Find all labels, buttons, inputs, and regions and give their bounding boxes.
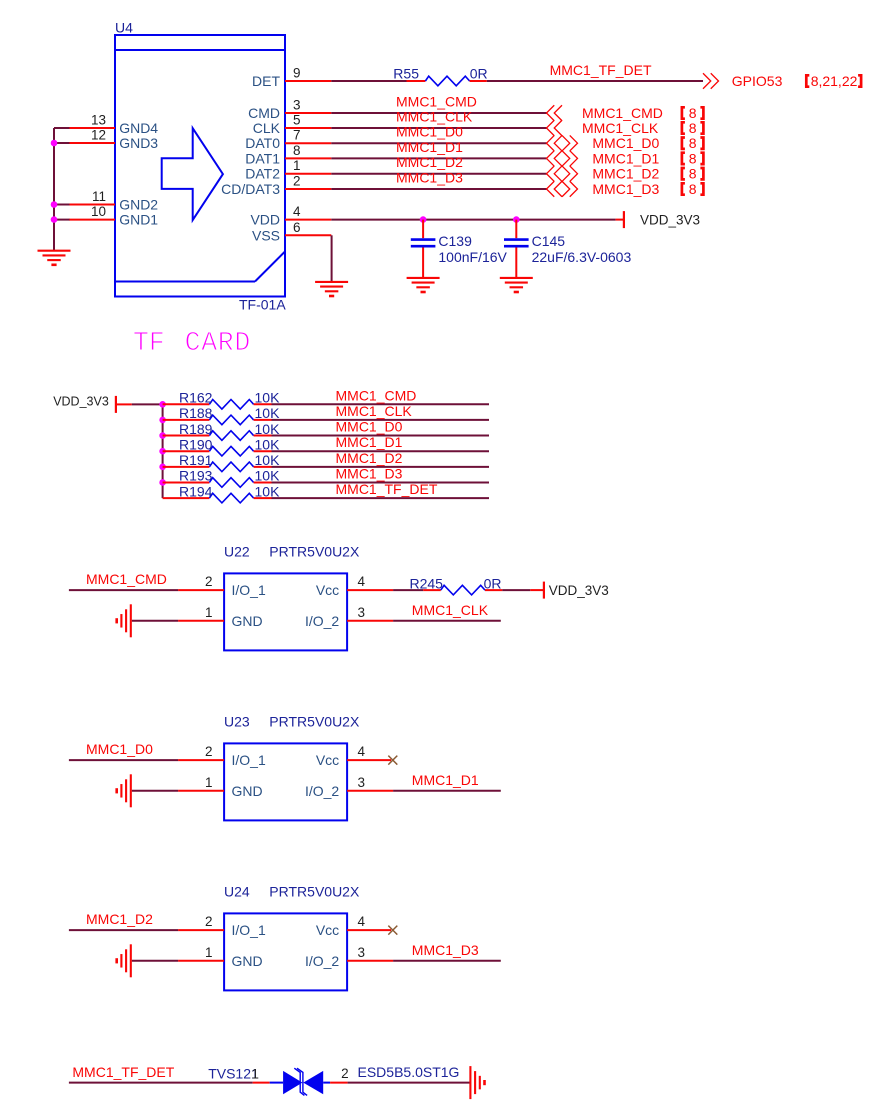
svg-text:I/O_1: I/O_1	[232, 752, 266, 768]
svg-text:CD/DAT3: CD/DAT3	[221, 181, 280, 197]
svg-text:8: 8	[689, 135, 697, 151]
svg-text:MMC1_D3: MMC1_D3	[592, 181, 659, 197]
svg-text:CLK: CLK	[253, 120, 281, 136]
svg-text:MMC1_D2: MMC1_D2	[86, 911, 153, 927]
svg-text:2: 2	[205, 744, 213, 759]
svg-text:MMC1_CLK: MMC1_CLK	[582, 120, 659, 136]
svg-text:5: 5	[293, 113, 301, 128]
svg-text:4: 4	[358, 914, 366, 929]
svg-text:TF-01A: TF-01A	[239, 297, 286, 313]
svg-text:MMC1_D0: MMC1_D0	[86, 741, 153, 757]
svg-text:Vcc: Vcc	[316, 922, 339, 938]
svg-text:MMC1_CMD: MMC1_CMD	[396, 94, 477, 110]
svg-text:I/O_1: I/O_1	[232, 922, 266, 938]
svg-text:3: 3	[358, 945, 366, 960]
svg-text:GND: GND	[232, 953, 263, 969]
svg-text:CMD: CMD	[248, 105, 280, 121]
svg-text:0R: 0R	[484, 575, 502, 591]
svg-text:DAT2: DAT2	[245, 166, 280, 182]
svg-text:R190: R190	[179, 436, 213, 452]
svg-text:2: 2	[293, 174, 301, 189]
svg-text:MMC1_D2: MMC1_D2	[592, 166, 659, 182]
svg-text:13: 13	[91, 113, 106, 128]
svg-text:VDD_3V3: VDD_3V3	[549, 583, 609, 598]
svg-text:8,21,22: 8,21,22	[811, 73, 858, 89]
svg-text:MMC1_D1: MMC1_D1	[336, 434, 403, 450]
svg-text:2: 2	[205, 914, 213, 929]
svg-text:R162: R162	[179, 390, 213, 406]
svg-text:12: 12	[91, 128, 106, 143]
svg-text:VDD_3V3: VDD_3V3	[640, 213, 700, 228]
svg-text:Vcc: Vcc	[316, 752, 339, 768]
svg-text:PRTR5V0U2X: PRTR5V0U2X	[269, 544, 360, 560]
svg-text:10K: 10K	[255, 421, 281, 437]
svg-text:MMC1_D1: MMC1_D1	[396, 139, 463, 155]
svg-text:R188: R188	[179, 405, 213, 421]
svg-text:8: 8	[689, 181, 697, 197]
svg-text:GPIO53: GPIO53	[732, 73, 783, 89]
svg-text:R194: R194	[179, 483, 213, 499]
svg-text:MMC1_CLK: MMC1_CLK	[412, 602, 489, 618]
svg-text:MMC1_TF_DET: MMC1_TF_DET	[550, 62, 652, 78]
svg-text:MMC1_CMD: MMC1_CMD	[86, 571, 167, 587]
svg-text:10K: 10K	[255, 452, 281, 468]
svg-text:1: 1	[205, 605, 213, 620]
svg-text:MMC1_TF_DET: MMC1_TF_DET	[72, 1064, 174, 1080]
svg-text:MMC1_D2: MMC1_D2	[396, 154, 463, 170]
svg-text:MMC1_CLK: MMC1_CLK	[396, 109, 473, 125]
svg-text:DAT1: DAT1	[245, 150, 280, 166]
svg-text:GND: GND	[232, 783, 263, 799]
svg-text:8: 8	[689, 166, 697, 182]
svg-text:MMC1_CLK: MMC1_CLK	[336, 403, 413, 419]
svg-text:PRTR5V0U2X: PRTR5V0U2X	[269, 714, 360, 730]
svg-text:PRTR5V0U2X: PRTR5V0U2X	[269, 884, 360, 900]
svg-text:2: 2	[205, 574, 213, 589]
svg-text:4: 4	[358, 744, 366, 759]
svg-text:11: 11	[92, 189, 106, 204]
svg-text:1: 1	[205, 945, 213, 960]
svg-text:VSS: VSS	[252, 227, 280, 243]
svg-text:I/O_2: I/O_2	[305, 783, 339, 799]
svg-text:R193: R193	[179, 468, 213, 484]
svg-text:TF: TF	[133, 328, 165, 358]
svg-text:C145: C145	[532, 233, 566, 249]
svg-text:3: 3	[293, 98, 301, 113]
svg-text:I/O_1: I/O_1	[232, 582, 266, 598]
svg-text:MMC1_D3: MMC1_D3	[412, 942, 479, 958]
svg-text:U22: U22	[224, 544, 250, 560]
svg-text:GND4: GND4	[119, 120, 158, 136]
svg-text:MMC1_D1: MMC1_D1	[592, 150, 659, 166]
svg-text:8: 8	[293, 143, 301, 158]
svg-text:VDD_3V3: VDD_3V3	[53, 395, 109, 409]
svg-text:1: 1	[251, 1067, 259, 1082]
svg-text:CARD: CARD	[185, 328, 251, 358]
svg-text:8: 8	[689, 105, 697, 121]
svg-text:8: 8	[689, 120, 697, 136]
svg-text:0R: 0R	[470, 66, 488, 82]
svg-text:MMC1_TF_DET: MMC1_TF_DET	[336, 481, 438, 497]
svg-text:R191: R191	[179, 452, 213, 468]
svg-text:MMC1_CMD: MMC1_CMD	[582, 105, 663, 121]
svg-text:MMC1_D0: MMC1_D0	[336, 419, 403, 435]
svg-text:4: 4	[358, 574, 366, 589]
svg-text:4: 4	[293, 204, 301, 219]
svg-text:MMC1_D3: MMC1_D3	[336, 465, 403, 481]
svg-text:DET: DET	[252, 73, 280, 89]
svg-text:DAT0: DAT0	[245, 135, 280, 151]
svg-text:10K: 10K	[255, 405, 281, 421]
svg-text:7: 7	[293, 128, 301, 143]
svg-text:MMC1_D0: MMC1_D0	[396, 124, 463, 140]
svg-text:GND1: GND1	[119, 212, 158, 228]
svg-text:8: 8	[689, 150, 697, 166]
svg-text:10K: 10K	[255, 483, 281, 499]
svg-text:MMC1_D1: MMC1_D1	[412, 772, 479, 788]
svg-text:R55: R55	[393, 66, 419, 82]
svg-text:9: 9	[293, 66, 301, 81]
svg-text:U4: U4	[115, 20, 133, 36]
svg-text:GND3: GND3	[119, 135, 158, 151]
svg-text:10: 10	[91, 204, 106, 219]
svg-text:10K: 10K	[255, 436, 281, 452]
svg-text:VDD: VDD	[250, 212, 280, 228]
svg-text:R189: R189	[179, 421, 213, 437]
svg-text:GND2: GND2	[119, 197, 158, 213]
svg-text:22uF/6.3V-0603: 22uF/6.3V-0603	[532, 249, 632, 265]
svg-text:R245: R245	[410, 575, 444, 591]
svg-text:Vcc: Vcc	[316, 582, 339, 598]
svg-text:MMC1_D3: MMC1_D3	[396, 170, 463, 186]
svg-text:1: 1	[205, 775, 213, 790]
svg-text:ESD5B5.0ST1G: ESD5B5.0ST1G	[358, 1064, 460, 1080]
svg-text:1: 1	[293, 158, 301, 173]
svg-text:U24: U24	[224, 884, 250, 900]
svg-text:MMC1_CMD: MMC1_CMD	[336, 387, 417, 403]
svg-text:MMC1_D2: MMC1_D2	[336, 450, 403, 466]
svg-text:MMC1_D0: MMC1_D0	[592, 135, 659, 151]
svg-text:C139: C139	[438, 233, 472, 249]
svg-text:100nF/16V: 100nF/16V	[438, 249, 507, 265]
svg-text:6: 6	[293, 220, 301, 235]
svg-text:3: 3	[358, 775, 366, 790]
svg-text:3: 3	[358, 605, 366, 620]
svg-text:GND: GND	[232, 613, 263, 629]
svg-text:I/O_2: I/O_2	[305, 613, 339, 629]
svg-text:2: 2	[341, 1066, 349, 1081]
svg-text:10K: 10K	[255, 390, 281, 406]
svg-text:U23: U23	[224, 714, 250, 730]
svg-text:I/O_2: I/O_2	[305, 953, 339, 969]
svg-text:10K: 10K	[255, 468, 281, 484]
